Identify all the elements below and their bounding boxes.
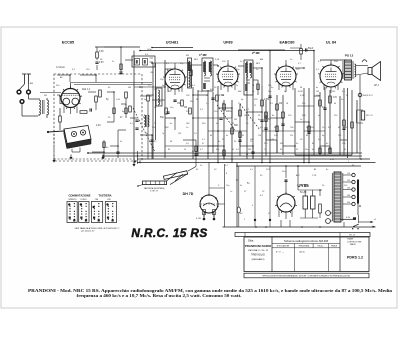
svg-text:68: 68 <box>300 87 302 89</box>
svg-text:1,2: 1,2 <box>206 103 209 105</box>
svg-text:AM: AM <box>260 58 263 61</box>
svg-text:PDRS 1.2: PDRS 1.2 <box>347 256 363 260</box>
svg-text:RADIO: RADIO <box>350 243 357 246</box>
svg-text:V. SP. 27: V. SP. 27 <box>150 191 159 193</box>
svg-text:3,9K: 3,9K <box>215 59 220 61</box>
svg-text:90: 90 <box>222 103 224 105</box>
svg-text:TREVIGLIO: TREVIGLIO <box>251 253 265 257</box>
svg-text:30H: 30H <box>334 61 338 63</box>
svg-text:1M: 1M <box>244 115 247 117</box>
svg-text:50K: 50K <box>234 125 239 127</box>
svg-text:1ª MF: 1ª MF <box>199 53 207 57</box>
svg-text:10n: 10n <box>170 107 173 109</box>
svg-text:50µF: 50µF <box>308 48 314 50</box>
svg-text:a2: a2 <box>374 219 376 221</box>
svg-text:1,2K: 1,2K <box>312 175 317 177</box>
svg-text:60: 60 <box>210 135 212 137</box>
svg-text:6,3V: 6,3V <box>330 159 335 161</box>
svg-text:OM: OM <box>95 199 99 201</box>
svg-text:PRANDONI DARIO: PRANDONI DARIO <box>245 244 272 248</box>
svg-text:EABC80: EABC80 <box>280 41 295 45</box>
svg-text:Schema radiogrammofono AM-FM: Schema radiogrammofono AM-FM <box>284 239 329 243</box>
svg-text:0,3: 0,3 <box>192 85 195 87</box>
svg-text:15: 15 <box>206 95 208 97</box>
svg-text:TASTIERA (MONTATA): TASTIERA (MONTATA) <box>144 187 165 190</box>
svg-text:1M: 1M <box>279 103 282 105</box>
svg-text:SPENTO: SPENTO <box>68 199 77 201</box>
svg-text:9p: 9p <box>144 99 146 101</box>
svg-text:19: 19 <box>232 149 234 151</box>
svg-text:460 kc: 460 kc <box>299 252 305 254</box>
svg-text:5n: 5n <box>236 85 238 87</box>
svg-text:3n: 3n <box>120 141 122 143</box>
svg-text:1,5: 1,5 <box>148 85 151 87</box>
svg-text:6,8: 6,8 <box>174 101 177 103</box>
svg-text:1,8: 1,8 <box>194 133 197 135</box>
svg-text:(BERGAMO): (BERGAMO) <box>252 258 265 261</box>
svg-text:FONO: FONO <box>81 199 87 201</box>
svg-text:3n: 3n <box>296 143 298 145</box>
svg-text:13: 13 <box>344 149 346 151</box>
svg-text:22n: 22n <box>290 135 293 137</box>
svg-text:0,5M: 0,5M <box>300 95 305 97</box>
svg-text:120: 120 <box>268 85 271 87</box>
svg-text:2,2K: 2,2K <box>96 125 101 127</box>
svg-text:VEDI TABELLA A TERGO PER LE PO: VEDI TABELLA A TERGO PER LE POSIZIONI 1°… <box>75 227 121 230</box>
svg-text:55: 55 <box>346 95 348 97</box>
svg-text:2ª MF: 2ª MF <box>252 51 260 55</box>
svg-text:FM: FM <box>108 199 111 201</box>
svg-text:6n: 6n <box>326 143 328 145</box>
svg-text:33K: 33K <box>165 127 169 129</box>
svg-text:30: 30 <box>146 133 148 135</box>
svg-text:2n: 2n <box>112 61 114 63</box>
svg-text:22: 22 <box>178 91 180 93</box>
svg-text:N.R.C. 15 RS: N.R.C. 15 RS <box>131 226 207 240</box>
svg-text:AP 4: AP 4 <box>374 84 380 87</box>
svg-text:4,7M: 4,7M <box>196 218 201 220</box>
svg-text:per distese 25°: per distese 25° <box>81 230 95 233</box>
svg-text:50+50: 50+50 <box>300 192 307 194</box>
svg-text:0,7: 0,7 <box>200 149 203 151</box>
svg-text:31: 31 <box>296 149 298 151</box>
svg-text:2n: 2n <box>230 111 232 113</box>
svg-text:FM: FM <box>44 95 47 97</box>
svg-text:UCH81: UCH81 <box>166 41 178 45</box>
svg-text:1,5K: 1,5K <box>116 99 121 101</box>
svg-text:PO 12: PO 12 <box>345 54 354 58</box>
svg-text:85: 85 <box>168 149 170 151</box>
svg-text:C.Somm: C.Somm <box>56 67 65 69</box>
svg-text:330: 330 <box>190 101 193 103</box>
svg-text:FREQUENZA: FREQUENZA <box>299 245 310 248</box>
svg-text:14: 14 <box>184 149 186 151</box>
svg-text:9n: 9n <box>226 135 228 137</box>
svg-text:FM: FM <box>128 87 131 89</box>
svg-text:ECC85: ECC85 <box>62 41 74 45</box>
svg-text:1M: 1M <box>316 91 319 93</box>
svg-text:35: 35 <box>242 135 244 137</box>
svg-text:150: 150 <box>338 135 341 137</box>
svg-text:100KΩ POT: 100KΩ POT <box>363 95 374 97</box>
svg-text:E O —: E O — <box>276 252 285 254</box>
svg-text:Ditta: Ditta <box>248 239 254 243</box>
svg-text:18: 18 <box>286 103 288 105</box>
svg-text:COMMUTAZIONE: COMMUTAZIONE <box>68 194 90 198</box>
svg-text:AM: AM <box>30 82 33 85</box>
svg-text:OM: OM <box>150 72 154 74</box>
svg-text:1M: 1M <box>184 107 187 109</box>
svg-text:1n: 1n <box>230 191 232 193</box>
svg-text:OSCILL.: OSCILL. <box>317 246 324 248</box>
svg-text:2p: 2p <box>284 91 286 93</box>
svg-text:75: 75 <box>254 105 256 107</box>
svg-text:4p: 4p <box>162 85 164 87</box>
svg-text:40: 40 <box>334 103 336 105</box>
svg-text:COSTRUTTORE: COSTRUTTORE <box>347 241 362 243</box>
svg-text:47n: 47n <box>158 101 161 103</box>
svg-text:12n: 12n <box>238 103 241 105</box>
svg-text:2M: 2M <box>234 119 237 121</box>
svg-text:Rad 1,2: Rad 1,2 <box>82 89 91 91</box>
svg-text:0,5M: 0,5M <box>264 99 269 101</box>
svg-text:2n: 2n <box>152 147 154 149</box>
svg-text:80: 80 <box>306 135 308 137</box>
svg-text:33: 33 <box>252 85 254 87</box>
svg-text:6,3V: 6,3V <box>346 217 351 219</box>
svg-text:1n: 1n <box>240 61 242 63</box>
svg-text:NTC 41: NTC 41 <box>366 115 373 117</box>
svg-text:8n: 8n <box>272 115 274 117</box>
svg-text:TASTIERA: TASTIERA <box>98 194 111 198</box>
svg-text:UF89: UF89 <box>223 41 232 45</box>
svg-text:110: 110 <box>258 135 261 137</box>
svg-text:2,5V: 2,5V <box>99 62 104 64</box>
svg-text:4n: 4n <box>170 123 172 125</box>
svg-text:3,3K: 3,3K <box>99 51 104 53</box>
svg-text:1n: 1n <box>218 141 220 143</box>
svg-text:MODULAZIONE: MODULAZIONE <box>277 245 290 248</box>
svg-text:UL 84: UL 84 <box>326 41 337 45</box>
svg-text:DH 7D: DH 7D <box>183 192 194 196</box>
svg-text:PRANDONI - Mod. NRC 15 RS. App: PRANDONI - Mod. NRC 15 RS. Apparecchio r… <box>28 288 393 293</box>
svg-text:47K: 47K <box>254 99 258 101</box>
svg-text:470K: 470K <box>298 91 303 93</box>
svg-text:7,5: 7,5 <box>264 149 267 151</box>
svg-text:TRASF.: TRASF. <box>347 238 354 241</box>
svg-text:25n: 25n <box>282 171 285 173</box>
svg-text:270: 270 <box>328 149 331 151</box>
svg-text:FINALE: FINALE <box>331 245 338 248</box>
svg-text:2,7: 2,7 <box>318 103 321 105</box>
svg-text:230: 230 <box>248 149 251 151</box>
svg-text:7p: 7p <box>162 133 164 135</box>
svg-text:6n: 6n <box>312 149 314 151</box>
svg-text:4n: 4n <box>316 87 318 89</box>
svg-text:VIA ROMA 21 - TEL. 33: VIA ROMA 21 - TEL. 33 <box>248 249 268 252</box>
svg-text:PU 12: PU 12 <box>349 235 356 237</box>
svg-text:95: 95 <box>280 149 282 151</box>
svg-text:frequenza a 460 kc/s e a 10,7: frequenza a 460 kc/s e a 10,7 Mc/s. Resa… <box>77 293 242 298</box>
svg-text:250: 250 <box>178 133 181 135</box>
svg-text:45n: 45n <box>216 149 219 151</box>
svg-text:3p: 3p <box>322 135 324 137</box>
svg-text:3n: 3n <box>240 185 242 187</box>
svg-text:3,9: 3,9 <box>270 103 273 105</box>
svg-text:5n: 5n <box>318 115 320 117</box>
